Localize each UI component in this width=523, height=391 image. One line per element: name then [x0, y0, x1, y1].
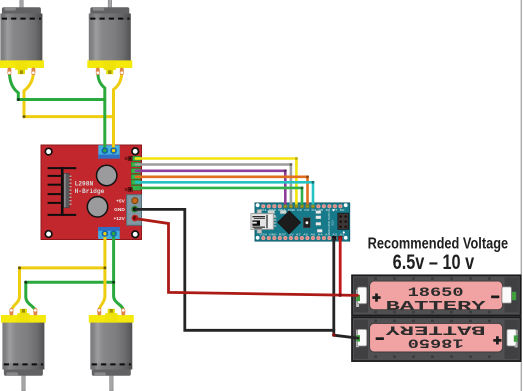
capacitor C1: [97, 165, 117, 185]
signal wire green ENB: [136, 188, 302, 207]
power screw block: [127, 195, 142, 226]
Nano pin labels: [260, 209, 346, 236]
cap right: [507, 329, 516, 346]
svg-text:S: S: [124, 187, 127, 192]
wire red +12V L298N to battery: [137, 219, 358, 296]
svg-text:V3.0: V3.0: [331, 220, 334, 226]
motor M3 bottom-left: [1, 308, 46, 391]
svg-text:6.5v – 10 v: 6.5v – 10 v: [393, 250, 475, 274]
svg-text:BATTERY: BATTERY: [385, 322, 485, 337]
jumper S1: [124, 156, 132, 161]
minus sign: [376, 337, 384, 340]
contact green left: [356, 295, 360, 301]
ICSP header: [338, 213, 349, 229]
bend dot yellow: [23, 115, 26, 118]
battery holder BT2 (flipped): [352, 317, 521, 361]
MCU chip (diamond): [278, 211, 301, 234]
minus sign: [491, 296, 499, 299]
frame right border: [521, 0, 522, 391]
jumper S2: [124, 187, 132, 192]
battery cell 18650: [370, 323, 503, 352]
svg-text:ARDUINO NANO: ARDUINO NANO: [327, 211, 331, 235]
svg-text:+5V: +5V: [116, 198, 125, 204]
Nano corner holes: [256, 203, 348, 239]
bend dots yellow: [103, 266, 106, 269]
cell text: [386, 285, 486, 313]
Nano pin pads top: [261, 204, 342, 208]
contact plate left: [356, 289, 359, 307]
signal wire orange IN3: [136, 177, 308, 207]
contact green right: [512, 292, 516, 300]
cell text rotated: [385, 322, 485, 350]
white triangle marker: [332, 209, 335, 212]
reset button: [303, 218, 310, 228]
wire black Nano GND: [332, 240, 335, 331]
svg-text:+12V: +12V: [113, 216, 125, 222]
battery holder BT1: [352, 275, 521, 315]
battery cell 18650: [370, 281, 503, 310]
junction dot: [339, 294, 342, 297]
wire green M2 vertical: [98, 72, 105, 151]
wire yellow M1 to block A: [24, 72, 113, 117]
wire yellow block B to M3/M4: [99, 234, 105, 310]
plus sign: [493, 339, 501, 342]
label L298N H-Bridge: [75, 181, 105, 195]
small smd parts near top pads: [268, 210, 286, 217]
motor M1 top-left: [0, 0, 44, 75]
board name text: [327, 211, 335, 235]
motor M2 top-right: [87, 0, 132, 75]
capacitor C2: [87, 197, 107, 217]
Nano pin pads bottom: [261, 236, 342, 240]
signal wire purple IN2: [136, 171, 285, 207]
contact plate right: [515, 330, 518, 348]
signal wire teal IN4: [136, 182, 313, 206]
contact green right: [514, 335, 518, 341]
L298N board U1: [41, 145, 142, 240]
pad D GND black / VIN red: [332, 236, 336, 240]
bend dots green: [112, 281, 115, 284]
IC on heatsink: [64, 173, 72, 208]
svg-text:L298N: L298N: [75, 181, 94, 188]
mounting holes L298N: [45, 148, 138, 238]
signal wire gray IN1: [136, 165, 291, 207]
plus sign: [372, 296, 380, 299]
cap left: [357, 329, 366, 346]
terminal block bottom (motor B): [98, 227, 120, 239]
wire yellow M2 vertical: [114, 72, 122, 151]
cap left: [357, 287, 366, 304]
svg-text:VIN GND RST 5V A7 A6 A5 A4 A3: VIN GND RST 5V A7 A6 A5 A4 A3 A2 A1: [260, 233, 346, 236]
wire tips in block holes: [103, 149, 106, 152]
pin header J1 (6 pins): [131, 156, 140, 190]
contact plate left: [356, 330, 359, 348]
cap right: [502, 287, 512, 303]
labels +5V GND +12V: [113, 198, 125, 221]
bend dot green: [17, 98, 20, 101]
wire end dots at Nano pads: [284, 205, 315, 208]
hole rings block A over wires: [102, 148, 116, 236]
wire black GND L298N to battery: [136, 209, 358, 338]
svg-text:S: S: [124, 156, 127, 161]
signal wire yellow ENA: [136, 159, 296, 207]
bendpoint dot: [332, 333, 335, 336]
heatsink: [48, 167, 77, 216]
terminal block top (motor A): [98, 145, 119, 158]
svg-text:GND: GND: [114, 207, 125, 213]
motor M4 bottom-right: [89, 308, 134, 391]
Arduino Nano U2: [255, 203, 350, 241]
wire red Nano VIN: [339, 240, 342, 296]
wire green block B to M3/M4: [114, 234, 124, 310]
wire green M1 to block A: [9, 72, 104, 100]
contact green left: [356, 335, 360, 341]
svg-text:BATTERY: BATTERY: [386, 299, 486, 314]
LEDs: [316, 211, 322, 233]
USB connector: [251, 210, 276, 234]
svg-text:H-Bridge: H-Bridge: [75, 188, 105, 195]
